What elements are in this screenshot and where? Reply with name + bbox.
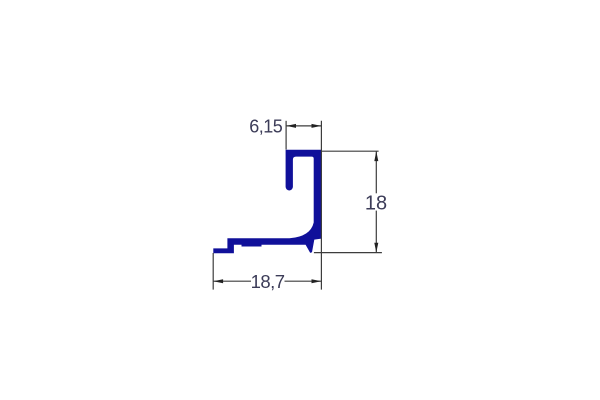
svg-text:6,15: 6,15: [249, 116, 283, 136]
svg-text:18,7: 18,7: [251, 271, 285, 292]
svg-text:18: 18: [365, 193, 387, 215]
